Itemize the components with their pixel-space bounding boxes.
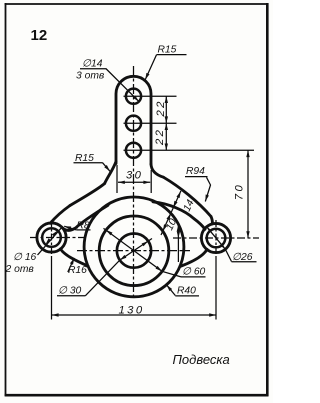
svg-text:12: 12 [31,27,48,44]
hub middle circle O60 [99,216,169,286]
centerline left ear vertical [51,220,53,259]
svg-text:∅26: ∅26 [232,252,253,263]
underline O26 [232,261,257,263]
leader R15 left [103,163,110,172]
svg-text:22: 22 [154,128,166,146]
centerline left ear horizontal [30,237,86,239]
arrows 30 dim [118,181,125,184]
svg-text:R15: R15 [75,153,94,164]
leader R40 [167,285,176,296]
underline R40 [175,295,199,297]
arrow R94 [204,195,209,202]
leader R15 right [145,55,156,80]
svg-text:130: 130 [119,305,145,317]
hole centerline tick top [124,95,177,97]
leader R94 [205,177,210,201]
arrows vertical tick [177,231,180,238]
arrows O16 [44,238,51,245]
centerline right ear horizontal [173,237,259,239]
svg-text:∅ 60: ∅ 60 [182,267,206,278]
svg-text:R16: R16 [68,265,87,276]
leader O14 [106,69,139,102]
dia line O16 [38,228,62,255]
arrows O30 [119,255,127,262]
svg-text:R15: R15 [158,45,177,56]
underline R15 left [74,162,103,164]
arrows O26 [205,226,212,233]
hub inner circle O30 [117,234,151,268]
hole centerline tick bottom / ext line for 70 dim [124,149,255,151]
arm hole middle [126,116,141,131]
svg-text:R40: R40 [177,286,196,297]
dim line 130 [52,314,216,316]
arm outline with cap [116,76,151,164]
svg-text:2 отв: 2 отв [5,264,35,275]
dia line O26 + leader [206,226,232,262]
left ear outer circle [37,223,66,252]
hole centerline tick middle [124,122,177,124]
leader R8 [64,226,76,230]
left rim arc [63,205,108,230]
svg-text:R94: R94 [186,166,205,177]
right R16 fillet [180,249,207,266]
arrows steep 10/14 [161,224,167,232]
underline O14 [80,68,106,70]
dim line 30 [118,181,150,183]
underline R94 [185,176,208,178]
right R94 arc [163,177,211,216]
dim line 22x2 [165,96,167,150]
right ear hole [207,229,226,248]
svg-text:Подвеска: Подвеска [173,352,230,367]
svg-text:∅ 16: ∅ 16 [13,252,37,263]
right R15 fillet [151,164,163,177]
left R94 arc [70,184,105,206]
underline R8 [76,229,90,231]
centerline right ear vertical [215,220,217,259]
arrows 22 dim [165,96,168,103]
dia line O30 + leader [85,239,152,296]
vertical tick dim line right of hub [177,224,179,262]
hub outer circle R40 [84,197,184,297]
left R15 fillet [105,162,116,184]
leader R16 [68,258,75,272]
left ear hole [42,228,61,247]
svg-text:3 отв: 3 отв [76,71,105,82]
right rim arc [153,202,205,230]
ext line 130 left [51,259,53,320]
arrow R16 [70,257,76,265]
right ear outer circle [201,223,230,252]
left R8 fillet [50,206,70,224]
arrow R15 right [144,73,150,81]
underline O30 [57,295,85,297]
arrows 130 dim [52,313,59,316]
steep dim line 10/14 [161,191,181,235]
ext line 130 right [215,259,217,320]
centerline vertical arm+hub [133,66,135,296]
arrows 70 dim [246,150,249,157]
svg-text:∅14: ∅14 [82,59,103,70]
svg-text:30: 30 [126,170,143,182]
arrow R8 [64,225,71,230]
centerline horizontal hub [77,250,190,252]
svg-text:70: 70 [234,183,246,200]
svg-text:∅ 30: ∅ 30 [58,286,82,297]
dia line O60 + leader [104,228,182,277]
ext lines 30 dim [116,165,118,193]
arrow O14 [133,95,140,102]
arm hole bottom [126,143,141,158]
arm hole top [126,89,141,104]
arrow R40 [165,284,172,291]
svg-text:22: 22 [155,99,167,117]
left R16 fillet [60,249,88,266]
arrows O60 [105,229,112,236]
arrow R15 left [104,165,111,172]
dim line 70 [247,150,249,238]
underline R15 top [157,54,187,56]
underline O60 [181,276,206,278]
right R8 fillet [211,217,212,224]
